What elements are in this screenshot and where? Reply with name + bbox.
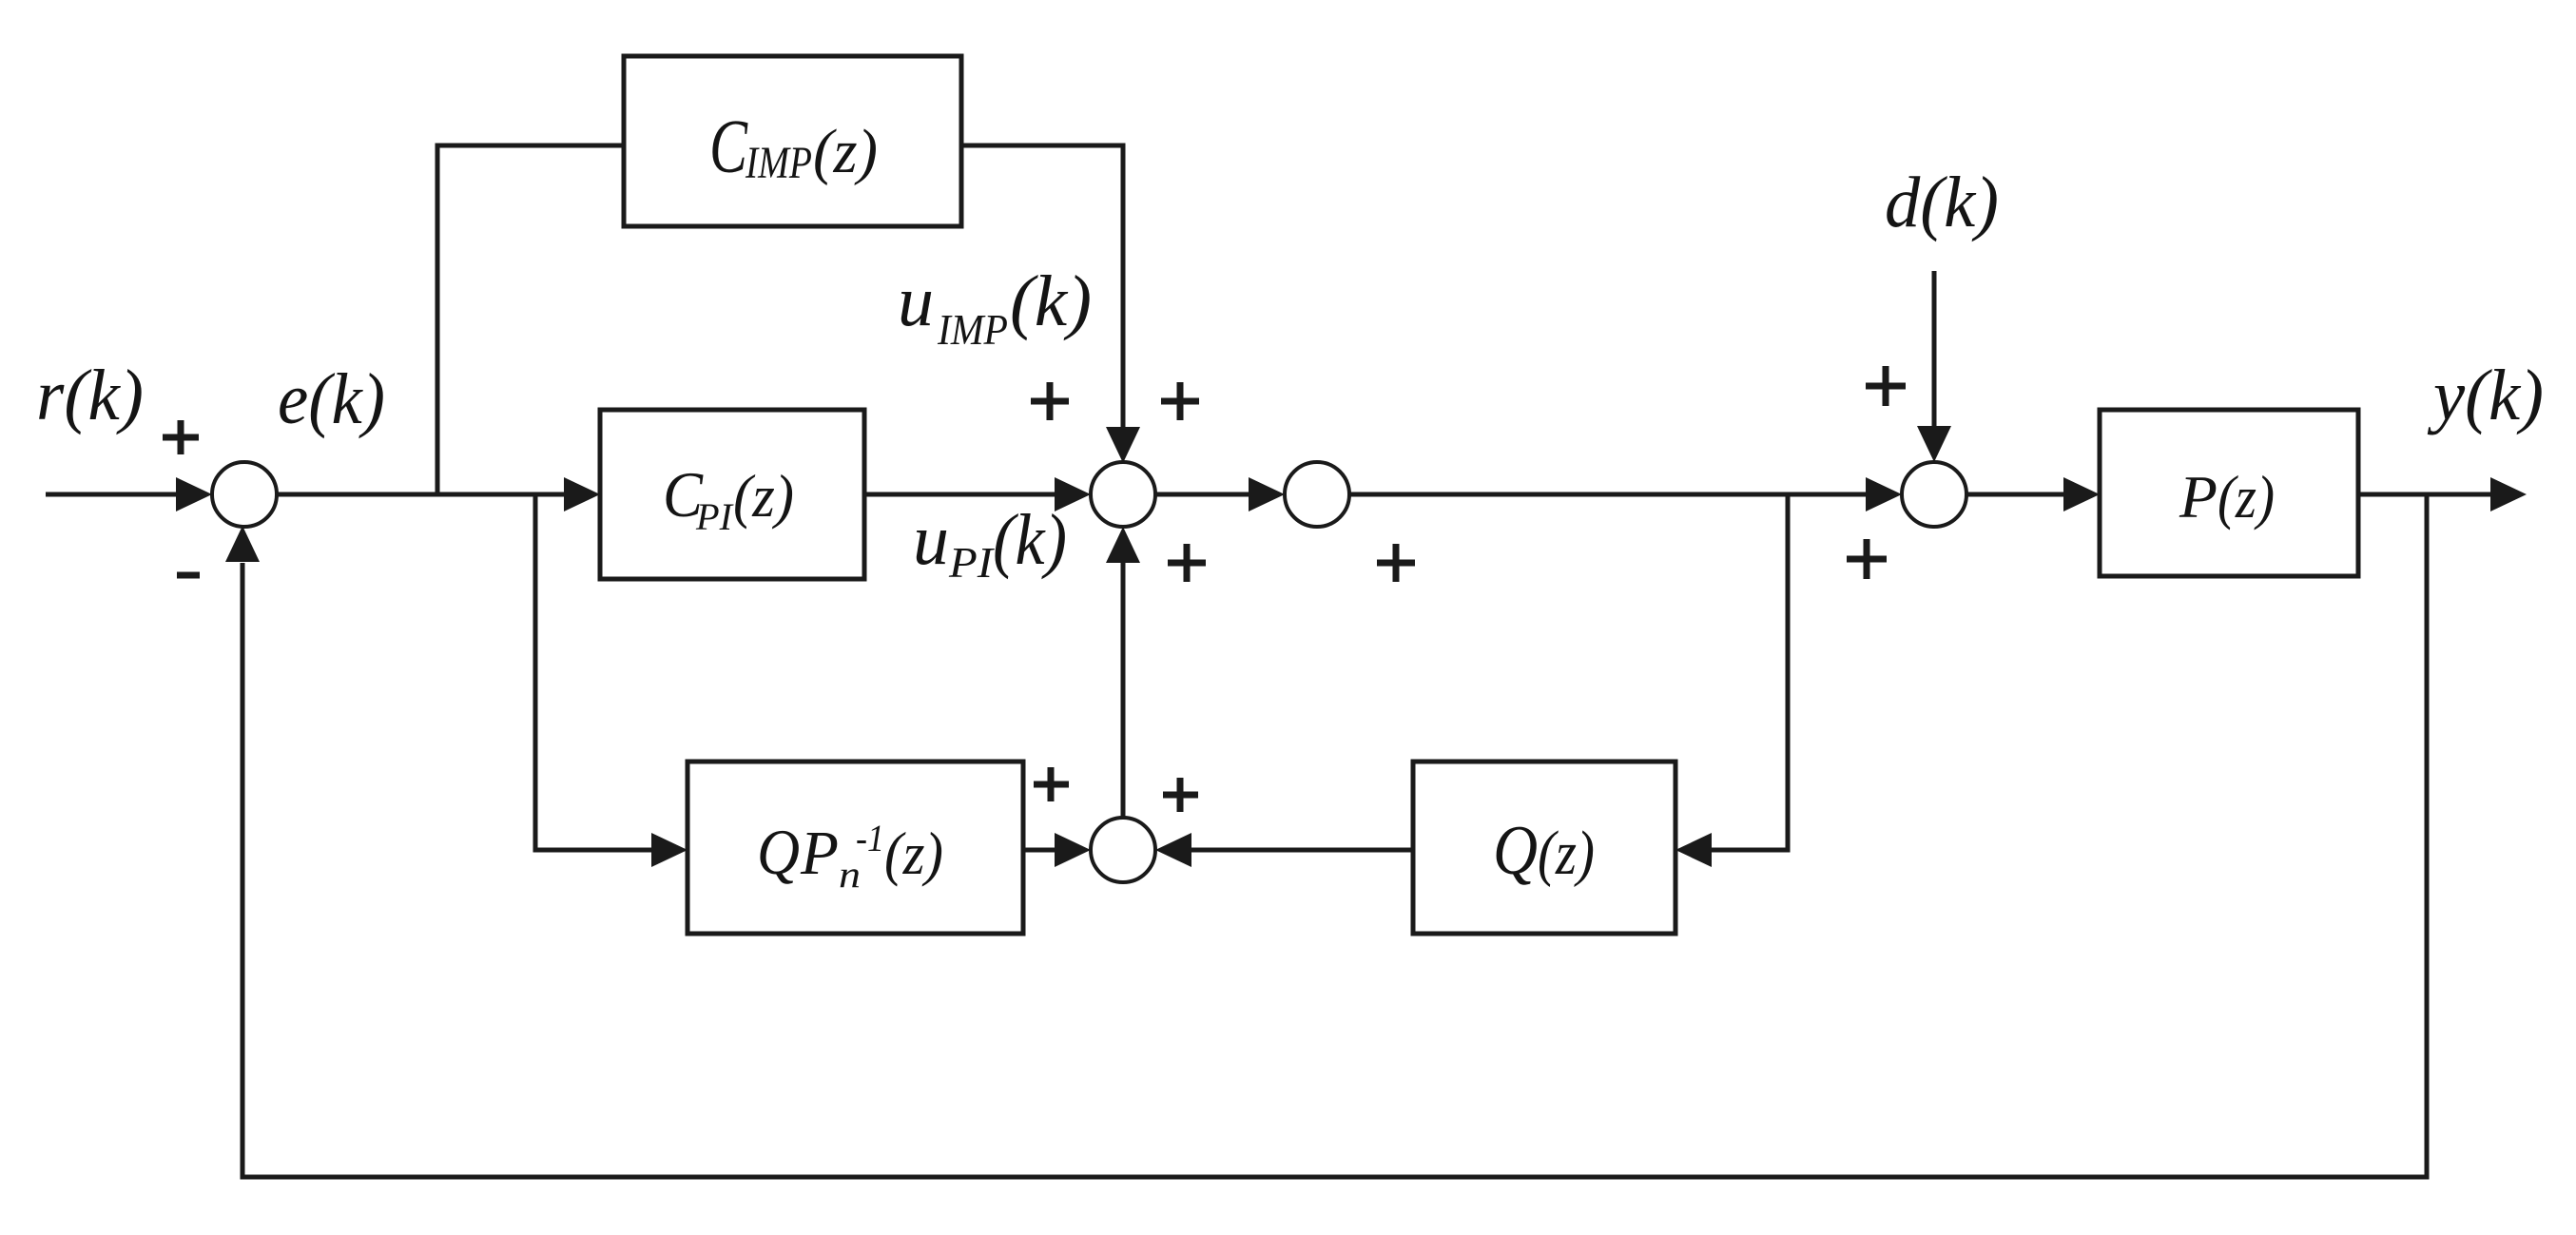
summing junction S1 (212, 462, 277, 527)
arrow d(k) into summing4 top (1917, 426, 1951, 462)
block Q (1413, 762, 1675, 934)
svg-text:C: C (709, 106, 748, 189)
wire CPI output to summing2 (864, 492, 1060, 497)
plus sign below junction circle (1377, 560, 1415, 567)
arrow into summing1 (176, 477, 212, 511)
summing junction S3 (1091, 818, 1155, 882)
svg-text:d(k): d(k) (1885, 163, 1999, 242)
svg-text:r(k): r(k) (36, 356, 144, 435)
summing junction S4 (1902, 462, 1966, 527)
wire summing3 up to summing2 (1121, 563, 1126, 818)
svg-text:(z): (z) (1538, 819, 1595, 888)
plus sign uIMP left (1031, 398, 1069, 405)
wire summing4 to P(z) (1966, 492, 2067, 497)
svg-text:(z): (z) (2218, 463, 2275, 531)
arrow into P(z) (2063, 477, 2100, 511)
plus sign Q output (1163, 792, 1198, 799)
plus sign below summing4 (1847, 556, 1887, 563)
svg-text:e(k): e(k) (278, 359, 385, 439)
junction circle S2b (1285, 462, 1349, 527)
svg-text:-1: -1 (856, 817, 884, 859)
svg-text:(k): (k) (1010, 261, 1092, 341)
svg-text:y(k): y(k) (2427, 356, 2544, 435)
svg-text:(z): (z) (813, 117, 878, 186)
wire P(z) output y(k) (2358, 492, 2493, 497)
arrow Q into summing3 right (1155, 833, 1191, 867)
arrow into QP block (651, 833, 688, 867)
svg-text:P: P (800, 819, 839, 888)
svg-text:PI: PI (695, 495, 734, 538)
arrow uPI into summing2 left (1055, 477, 1091, 511)
plus sign below summing2 (1168, 560, 1206, 567)
summing junction S2 (1091, 462, 1155, 527)
block P (2100, 410, 2358, 576)
svg-text:IMP: IMP (745, 138, 812, 188)
arrow uIMP into summing2 top (1106, 427, 1140, 463)
arrow feedback into summing1 bottom (225, 526, 260, 562)
svg-text:(k): (k) (993, 500, 1067, 580)
plus sign at summing1 (163, 434, 199, 441)
arrow into CPI (564, 477, 600, 511)
wire summing1 to CPI (276, 492, 567, 497)
wire CIMP output down to summing2 (961, 145, 1123, 430)
svg-text:Q: Q (1493, 812, 1538, 890)
svg-text:(z): (z) (884, 820, 943, 887)
plus sign QP output (1034, 782, 1069, 788)
svg-text:P: P (2179, 463, 2218, 531)
wire input r(k) (46, 492, 179, 497)
wire Q(z) output to summing3 (1190, 848, 1413, 853)
block CPI (600, 410, 864, 579)
wire d(k) into summing4 (1932, 271, 1937, 428)
plus sign d(k) (1866, 383, 1906, 390)
wire junction circle to summing4 (1349, 492, 1869, 497)
svg-text:u: u (913, 500, 949, 580)
plus sign uIMP right (1161, 398, 1199, 405)
svg-text:IMP: IMP (937, 305, 1008, 354)
wire branch down to QP (535, 494, 653, 850)
arrow into summing4 left (1866, 477, 1902, 511)
wire tap down to Q(z) (1710, 494, 1788, 850)
arrow QP into summing3 left (1055, 833, 1091, 867)
svg-text:u: u (898, 261, 934, 341)
wire branch up to CIMP (437, 145, 624, 494)
block QP (688, 762, 1023, 934)
svg-text:Q: Q (757, 816, 800, 888)
wire QP output to summing3 (1023, 848, 1058, 853)
wire feedback loop (242, 494, 2427, 1177)
arrow into Q(z) right (1675, 833, 1712, 867)
svg-text:(z): (z) (733, 462, 794, 530)
svg-text:PI: PI (948, 538, 996, 587)
arrow summing3 into summing2 bottom (1106, 527, 1140, 563)
block CIMP (624, 56, 961, 226)
wire summing2 to junction circle (1155, 492, 1254, 497)
minus sign at summing1 (177, 572, 200, 579)
arrow into junction circle (1249, 477, 1285, 511)
arrow output y(k) (2490, 477, 2527, 511)
